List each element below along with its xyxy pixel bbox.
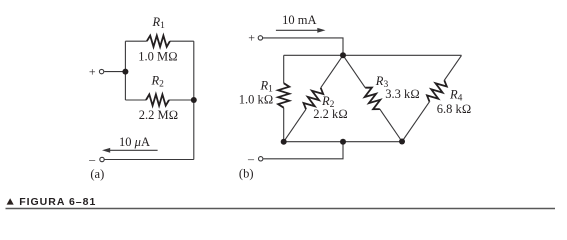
terminal + (a) open circle bbox=[99, 69, 103, 73]
terminal + (b) open circle bbox=[258, 36, 262, 40]
resistor R2 (circuit a) with leads bbox=[125, 99, 146, 101]
svg-text:10 μA: 10 μA bbox=[119, 135, 150, 149]
wire: bottom return to - terminal (a) bbox=[104, 159, 193, 161]
wire: - terminal lead (b) bbox=[263, 142, 343, 159]
svg-text:2.2 kΩ: 2.2 kΩ bbox=[313, 107, 348, 121]
svg-text:+: + bbox=[89, 65, 96, 79]
svg-text:R2: R2 bbox=[151, 74, 165, 90]
resistor R1 (circuit a) with leads bbox=[125, 40, 146, 42]
junction node (b) top bbox=[340, 52, 346, 58]
junction node (b) bottom right bbox=[399, 139, 405, 145]
svg-text:–: – bbox=[88, 152, 96, 166]
svg-text:R1: R1 bbox=[152, 15, 166, 31]
svg-text:+: + bbox=[248, 31, 255, 45]
caption marker triangle bbox=[7, 198, 14, 204]
caption rule line bbox=[6, 208, 556, 210]
resistor R1 (circuit b) with leads bbox=[283, 55, 285, 83]
terminal - (b) open circle bbox=[259, 157, 263, 161]
svg-text:FIGURA 6–81: FIGURA 6–81 bbox=[19, 196, 96, 208]
resistor R4 (circuit b) with leads bbox=[444, 55, 461, 80]
svg-text:1.0 kΩ: 1.0 kΩ bbox=[239, 93, 274, 107]
svg-text:(b): (b) bbox=[239, 167, 254, 181]
svg-text:10 mA: 10 mA bbox=[282, 13, 316, 27]
svg-text:–: – bbox=[247, 151, 255, 165]
svg-text:3.3 kΩ: 3.3 kΩ bbox=[385, 87, 420, 101]
junction node (b) bottom left bbox=[281, 139, 287, 145]
wire: right vertical bus (a) bbox=[193, 41, 195, 159]
current arrow 10 uA (a), pointing left bbox=[102, 148, 158, 153]
wire: top rail (b) bbox=[284, 54, 462, 56]
svg-text:6.8 kΩ: 6.8 kΩ bbox=[437, 102, 472, 116]
resistor R3 (circuit b) with leads bbox=[343, 55, 365, 87]
wire: + terminal lead (b) bbox=[263, 38, 343, 55]
resistor R2 (circuit b) with leads bbox=[321, 55, 343, 88]
junction node (a) at + lead bbox=[122, 69, 128, 75]
junction node (a) right of R2 bbox=[191, 97, 197, 103]
svg-text:1.0 MΩ: 1.0 MΩ bbox=[138, 50, 177, 64]
wire: + terminal lead (a) bbox=[104, 71, 125, 73]
svg-text:2.2 MΩ: 2.2 MΩ bbox=[139, 108, 178, 122]
wire: bottom rail (b) bbox=[284, 141, 402, 143]
terminal - (a) open circle bbox=[100, 157, 104, 161]
junction node (b) bottom middle bbox=[340, 139, 346, 145]
current arrow 10 mA (b), pointing right bbox=[276, 28, 326, 33]
svg-text:(a): (a) bbox=[90, 167, 104, 181]
wire: left vertical bus (a) bbox=[124, 41, 126, 100]
